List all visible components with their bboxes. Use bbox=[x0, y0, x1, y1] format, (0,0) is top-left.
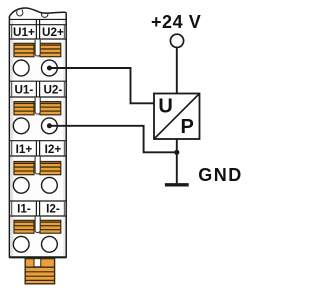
ground symbol bbox=[165, 183, 189, 186]
label row I1-/I2- bbox=[9, 201, 66, 216]
svg-text:U2-: U2- bbox=[43, 84, 62, 97]
junction node bbox=[174, 150, 179, 155]
test socket I1+ bbox=[13, 177, 29, 193]
svg-text:I1-: I1- bbox=[17, 203, 31, 216]
svg-text:U1-: U1- bbox=[14, 84, 33, 97]
screw terminal U1- bbox=[14, 102, 34, 115]
test socket I2+ bbox=[42, 177, 58, 193]
wire +24 V to transducer bbox=[176, 47, 178, 93]
test socket U1+ bbox=[13, 60, 29, 76]
test socket U2- bbox=[42, 118, 58, 134]
test socket U1- bbox=[13, 118, 29, 134]
screw terminal I1+ bbox=[14, 162, 34, 175]
svg-text:I2+: I2+ bbox=[45, 143, 62, 156]
test socket U2+ bbox=[42, 60, 58, 76]
terminal block housing bbox=[9, 8, 66, 257]
screw terminal I1- bbox=[14, 220, 34, 233]
screw terminal U1+ bbox=[14, 43, 34, 56]
bus connector foot bbox=[25, 259, 54, 284]
+24 V supply label bbox=[151, 12, 201, 32]
screw terminal I2- bbox=[40, 220, 61, 233]
housing latch notch right bbox=[41, 13, 47, 17]
screw terminal I2+ bbox=[40, 162, 61, 175]
+24 V supply terminal bbox=[170, 34, 183, 47]
housing latch notch left bbox=[17, 10, 23, 16]
label row U1-/U2- bbox=[9, 81, 66, 97]
release tab row 1 bbox=[35, 40, 40, 56]
svg-text:U2+: U2+ bbox=[42, 26, 64, 39]
label row U1+/U2+ bbox=[9, 19, 66, 39]
wire U2+ terminal to transducer input bbox=[49, 68, 153, 103]
transducer label P bbox=[181, 116, 194, 138]
transducer label U bbox=[158, 96, 172, 118]
release tab row 2 bbox=[35, 98, 40, 115]
svg-text:GND: GND bbox=[198, 165, 243, 185]
svg-text:P: P bbox=[181, 116, 194, 138]
test socket I2- bbox=[42, 236, 58, 252]
screw terminal U2+ bbox=[40, 43, 61, 56]
release tab row 4 bbox=[35, 217, 40, 233]
svg-text:+24 V: +24 V bbox=[151, 12, 201, 32]
release tab row 3 bbox=[35, 157, 40, 174]
svg-text:I2-: I2- bbox=[46, 203, 60, 216]
svg-text:U1+: U1+ bbox=[13, 26, 35, 39]
svg-text:I1+: I1+ bbox=[16, 143, 33, 156]
transducer U/P (pressure transducer) U1 bbox=[154, 94, 200, 140]
GND label bbox=[198, 165, 243, 185]
test socket I1- bbox=[13, 236, 29, 252]
svg-text:U: U bbox=[158, 96, 172, 118]
screw terminal U2- bbox=[40, 102, 61, 115]
wire I2+ terminal to ground node bbox=[49, 126, 176, 153]
label row I1+/I2+ bbox=[9, 141, 66, 157]
wire transducer to ground bbox=[176, 139, 178, 183]
